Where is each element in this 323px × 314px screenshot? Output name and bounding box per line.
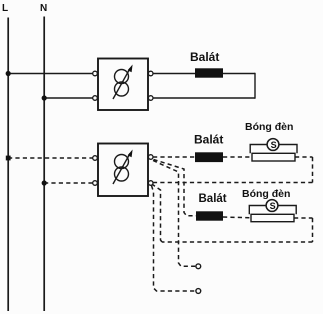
dashed lamp2 return up to U2 xyxy=(153,185,163,243)
lamp 1 starter bracket xyxy=(250,145,267,154)
lamp 2 starter bracket xyxy=(249,206,265,215)
U2 terminal left top xyxy=(93,156,98,161)
dashed wire B3 to lamp 2 xyxy=(223,216,252,219)
junction dot on N xyxy=(42,95,47,100)
line N xyxy=(43,17,45,312)
wire return to U1 xyxy=(153,97,255,99)
svg-text:Bóng đèn: Bóng đèn xyxy=(245,121,293,133)
dashed wire L to U2 top xyxy=(8,157,93,159)
dashed branch to connector A xyxy=(153,161,195,267)
dashed wire N to U2 bottom xyxy=(44,182,93,184)
ballast B3 xyxy=(196,211,223,220)
lamp tube 2 xyxy=(251,214,294,221)
lamp tube 1 xyxy=(252,153,295,161)
junction dot on L xyxy=(6,71,11,76)
ballast B2 xyxy=(195,152,223,162)
svg-text:L: L xyxy=(2,3,8,14)
dashed wire lamp2 to right xyxy=(294,217,313,219)
U2 terminal left bottom xyxy=(93,181,98,186)
dimmer box U1 xyxy=(98,59,148,111)
U2 terminal right top xyxy=(148,155,153,160)
dashed lamp1 return to U2 xyxy=(152,182,313,184)
wire U1 to ballast B1 xyxy=(153,73,196,75)
ballast B1 xyxy=(195,68,223,77)
junction dot on L (circuit 2) xyxy=(6,156,11,161)
wire N to U1 bottom xyxy=(44,97,93,99)
connector circle B xyxy=(196,289,201,294)
U1 terminal right bottom xyxy=(148,96,153,101)
svg-text:Balát: Balát xyxy=(190,50,219,64)
dimmer box U2 xyxy=(98,144,148,197)
starter S2 xyxy=(266,200,278,212)
U1 terminal right top xyxy=(148,71,153,76)
wire L to U1 top xyxy=(8,73,93,75)
svg-text:Bóng đèn: Bóng đèn xyxy=(242,188,290,200)
svg-text:S: S xyxy=(271,140,277,150)
junction dot on N (circuit 2) xyxy=(42,180,47,185)
dashed wire U2 bottom to connector B xyxy=(152,186,196,292)
svg-text:S: S xyxy=(270,201,276,211)
wire B1 to right xyxy=(223,73,255,75)
line L xyxy=(7,18,9,312)
dashed lamp2 return horizontal xyxy=(162,241,313,243)
U1 terminal left bottom xyxy=(93,96,98,101)
dashed wire B2 to lamp 1 xyxy=(223,156,253,158)
connector circle A xyxy=(196,264,201,269)
svg-text:Balát: Balát xyxy=(194,133,223,147)
starter S1 xyxy=(267,139,279,151)
U1 variac symbol xyxy=(113,69,130,100)
svg-text:N: N xyxy=(40,3,47,14)
dashed wire lamp1 to right xyxy=(295,156,313,158)
dashed branch to ballast B3 xyxy=(154,160,197,216)
U2 variac symbol xyxy=(113,154,130,185)
U1 terminal left top xyxy=(93,71,98,76)
dashed right vertical lamp1 return xyxy=(312,157,314,183)
wire right vertical xyxy=(254,73,256,99)
svg-text:Balát: Balát xyxy=(199,193,227,205)
U2 terminal right bottom xyxy=(148,181,153,186)
dashed wire U2 to ballast B2 xyxy=(153,156,196,158)
dashed right vertical lamp2 return xyxy=(312,218,314,242)
